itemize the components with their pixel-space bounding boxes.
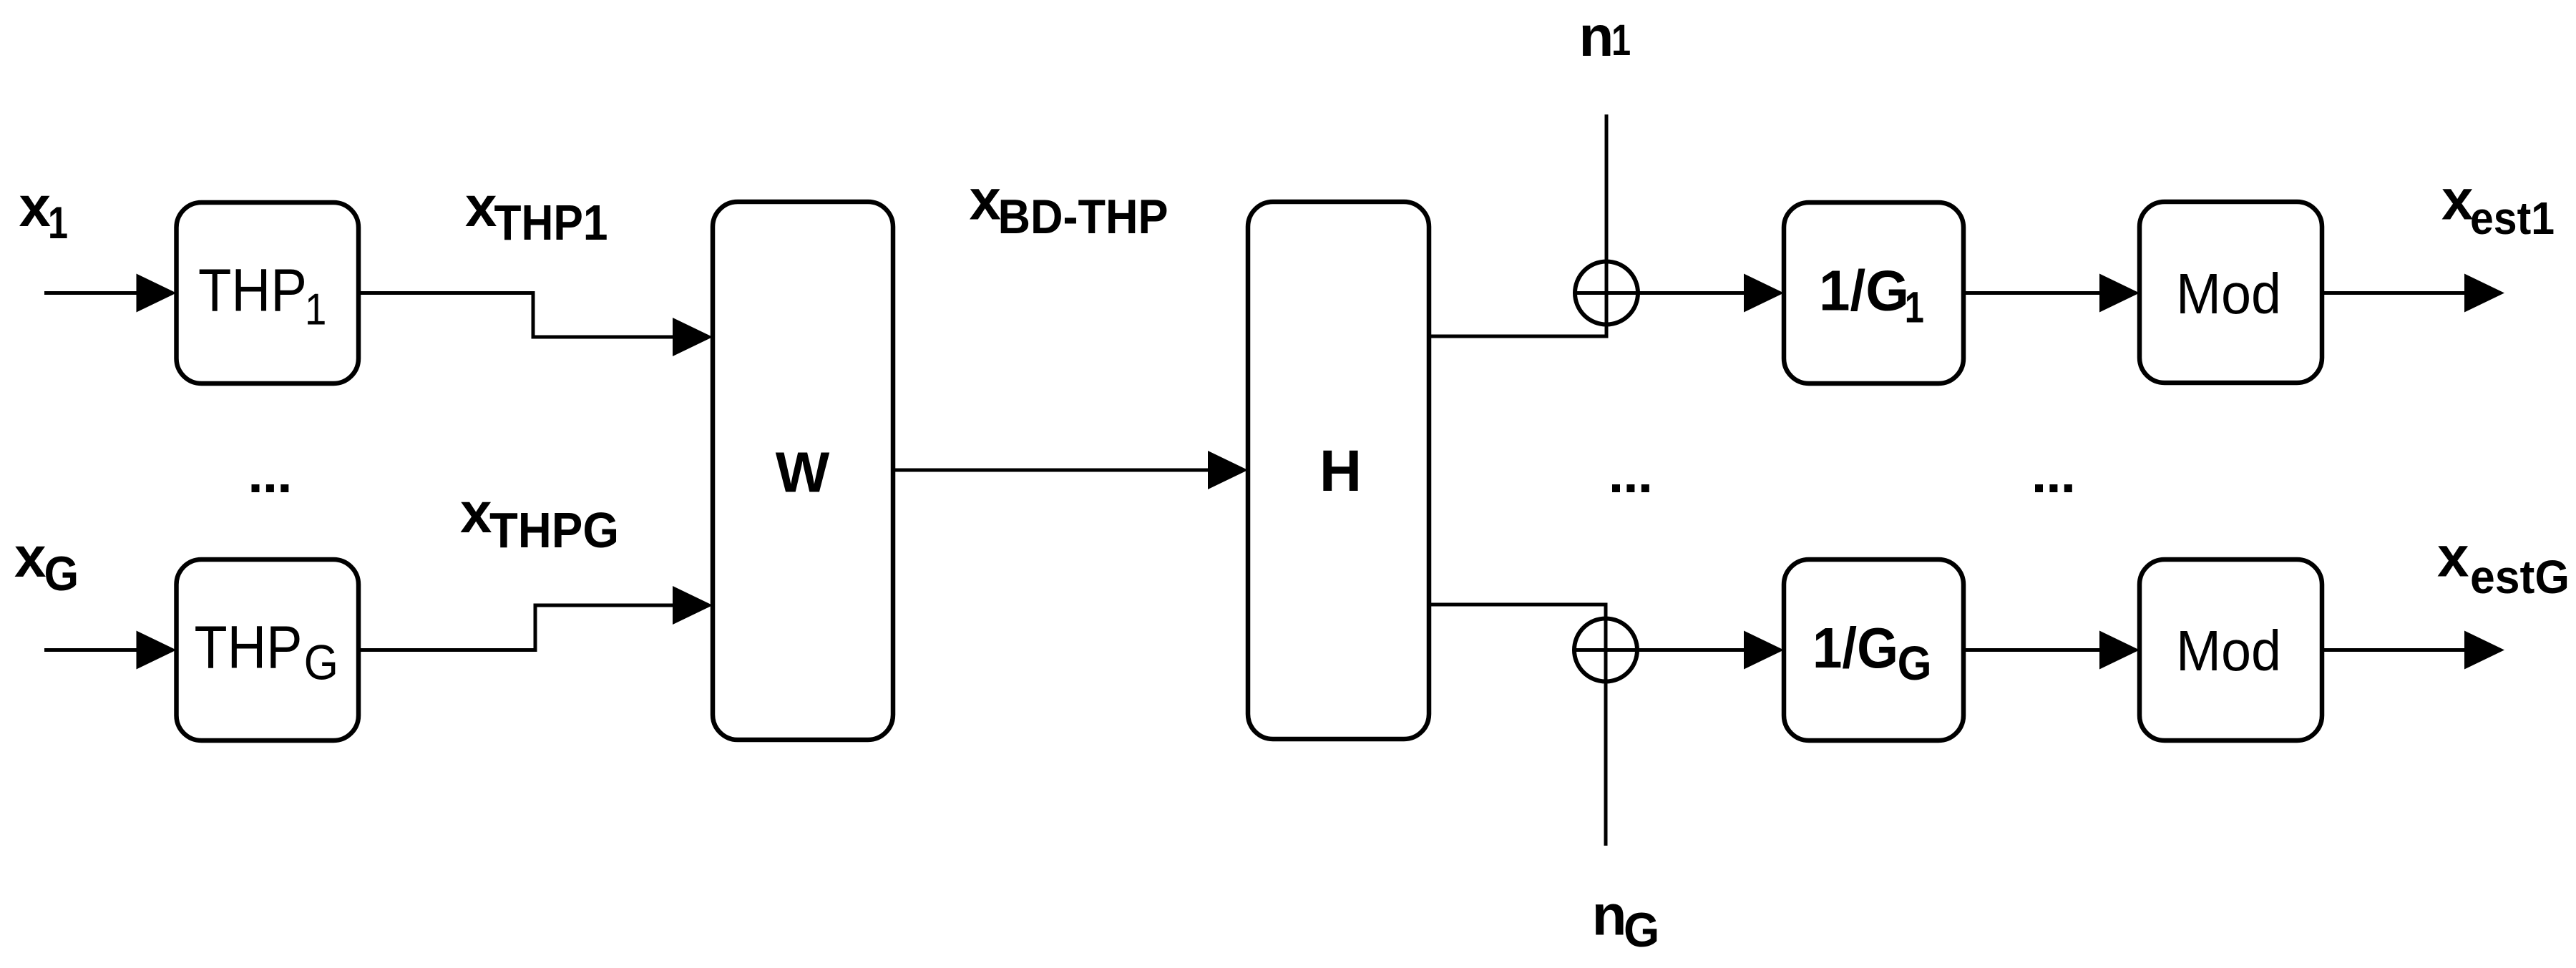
svg-text:Mod: Mod	[2176, 262, 2281, 326]
block 1/GG	[1784, 559, 1963, 740]
svg-text:THP: THP	[198, 256, 307, 323]
svg-text:1: 1	[1611, 16, 1631, 64]
svg-text:G: G	[1898, 637, 1932, 690]
svg-text:W: W	[776, 441, 830, 504]
wire 1/G1 to Mod1	[1963, 274, 2140, 313]
svg-text:x: x	[19, 175, 52, 238]
block 1/G1	[1784, 202, 1963, 383]
ellipsis right	[2035, 484, 2072, 492]
wire input xG	[44, 631, 177, 670]
wire ModG out	[2322, 631, 2504, 670]
svg-text:H: H	[1319, 439, 1362, 504]
wire THPG to W	[358, 586, 713, 650]
svg-text:1/G: 1/G	[1819, 259, 1909, 323]
wire n1	[1605, 114, 1609, 262]
block ModG	[2140, 559, 2322, 740]
svg-text:G: G	[44, 547, 79, 601]
svg-text:1: 1	[48, 198, 68, 249]
wire W to H	[893, 451, 1248, 489]
svg-text:1: 1	[1905, 283, 1924, 331]
block W	[713, 202, 893, 740]
wire adder2 to 1/GG	[1637, 631, 1784, 670]
block Mod1	[2140, 202, 2322, 383]
svg-text:n: n	[1579, 4, 1614, 68]
ellipsis left	[252, 484, 289, 492]
svg-text:1/G: 1/G	[1813, 616, 1898, 680]
block THP1	[177, 202, 359, 383]
svg-text:n: n	[1592, 884, 1627, 947]
svg-text:THP: THP	[195, 613, 303, 680]
block THPG	[177, 559, 359, 740]
wire adder1 to 1/G1	[1638, 274, 1784, 313]
wire H to adder2	[1429, 605, 1606, 619]
ellipsis middle	[1612, 484, 1649, 492]
adder A1	[1575, 262, 1638, 325]
wire 1/GG to ModG	[1963, 631, 2140, 670]
wire input x1	[44, 274, 177, 313]
svg-text:x: x	[14, 525, 47, 589]
wire nG	[1604, 682, 1608, 846]
svg-text:G: G	[1624, 904, 1659, 958]
svg-text:1: 1	[305, 285, 326, 334]
svg-text:G: G	[304, 635, 338, 690]
wire THP1 to W	[358, 293, 713, 357]
adder A2	[1574, 619, 1637, 682]
block H	[1248, 202, 1429, 739]
svg-text:Mod: Mod	[2176, 619, 2281, 683]
wire H to adder1	[1429, 325, 1606, 336]
wire Mod1 out	[2322, 274, 2504, 313]
